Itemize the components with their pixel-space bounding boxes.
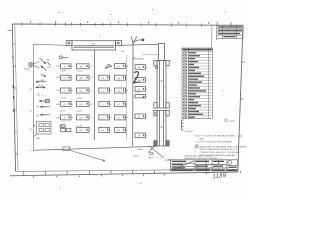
svg-text:B: B [38,93,40,97]
svg-text:A-4: A-4 [48,66,51,69]
board edge labels [31,66,33,131]
box right marks [68,65,144,136]
left margin inner line [15,24,18,171]
svg-text:REF ASM: REF ASM [136,58,145,61]
bottom zone dividers [24,170,155,176]
IC U15 [115,101,126,106]
svg-text:-05: -05 [31,110,33,113]
mark near table bottom right [225,119,228,122]
title block stamp circle [228,161,232,165]
leader 1 [69,150,104,160]
left zone dividers [13,44,18,154]
svg-text:3: 3 [92,77,93,79]
connector J3 upper [154,44,169,109]
bottom zone digits [33,174,165,178]
bottom margin inner line [16,169,238,171]
small part below wire [150,153,153,155]
transistor Q1 circle [29,62,40,69]
IC E2 [135,78,146,83]
IC U5 [77,75,90,80]
svg-text:A-XX YYY-XX-XX OF THE BACKBOAR: A-XX YYY-XX-XX OF THE BACKBOARD [196,134,236,137]
IC labels tiny [63,66,141,138]
svg-text:2-B12: 2-B12 [134,156,139,158]
svg-text:CONNECTORS. HIGH SLOT WIRES: A: CONNECTORS. HIGH SLOT WIRES: ALL [199,151,240,154]
leader 3 [148,146,154,153]
arrow A1 [40,100,50,103]
reference flag F1 [106,64,112,68]
IC U14 [99,101,110,106]
svg-text:-08-04: -08-04 [76,111,81,113]
board outline top edge [34,44,66,45]
note flag 2 [195,145,198,148]
IC row 2 [61,75,126,80]
IC E4 [135,95,146,98]
border top [12,24,243,25]
pin stub with circle [59,56,68,59]
inter-row wire labels [59,70,140,127]
svg-text:-03: -03 [31,88,33,91]
IC U22 [115,128,126,133]
IC row 1 [61,64,126,69]
title block text [172,161,237,171]
svg-text:B: B [33,124,35,128]
svg-text:A-18: A-18 [149,157,153,160]
svg-text:C-XX YYY XX-XX-XX FOR JUMPERS.: C-XX YYY XX-XX-XX FOR JUMPERS. [196,141,233,143]
IC U20 [77,128,90,133]
notes text [196,134,247,157]
connector J3 pin circle [155,66,158,69]
scan speckles [30,9,226,189]
svg-text:A-09: A-09 [57,116,61,119]
connector J4 lower [154,111,169,147]
arrow A3 [41,114,51,115]
box pin stubs [71,66,147,135]
top zone numbers [30,21,209,24]
border right [238,25,243,172]
title block [171,160,238,172]
jumper arrows J-B [36,87,45,88]
svg-text:B: B [37,105,39,109]
signal table text [182,49,212,51]
jumper arrows J-A [36,81,47,82]
svg-text:-09A-12: -09A-12 [59,124,66,127]
antenna V symbol [131,36,142,43]
IC U2 [77,64,90,69]
IC U3 [115,64,126,69]
svg-text:J1-A6: J1-A6 [39,79,44,82]
IC U11 [115,88,126,93]
arrow A2 [41,106,51,107]
IC U1 [61,64,71,69]
IC E1 [135,65,146,70]
IC row 5 [61,115,126,120]
svg-text:A-07: A-07 [57,103,61,106]
svg-text:-04-05: -04-05 [77,97,82,99]
svg-text:-05-02: -05-02 [61,97,66,99]
top zone ticks [22,22,231,27]
border bottom outer [10,172,238,176]
svg-text:7: 7 [92,104,93,106]
IC U9 [77,88,90,93]
IC U13 [77,101,90,106]
signature diagonal [172,161,195,171]
diode CR1 arrow [40,58,51,71]
connector J2 top [66,41,121,51]
svg-text:B: B [37,114,39,118]
svg-text:A-01: A-01 [57,65,61,68]
fold line center [126,55,128,140]
handwritten check mark [206,172,207,175]
IC U17 [77,115,90,120]
connector J4 pin circle [155,112,157,114]
IC row 6 [61,125,126,133]
board outline left edge [32,44,34,150]
left zone letters [12,56,15,112]
right border ticks [239,62,245,136]
IC E6 [135,133,146,138]
svg-text:A-05: A-05 [57,89,61,92]
bus B vertical [132,44,134,147]
svg-text:9: 9 [92,117,93,119]
IC U16 [61,115,71,120]
svg-text:AND: AND [199,137,204,140]
revision block text [218,26,242,37]
resistor pack RP1 [61,128,66,131]
IC E5 [135,114,146,119]
row side labels [57,65,94,120]
wire top to connectors [121,44,158,45]
IC row 4 [61,101,126,106]
bus B top label [133,57,135,60]
svg-text:A2: A2 [122,50,124,53]
relay K1 box [34,122,51,137]
leader 2 [150,147,163,158]
diode CR2 [41,74,46,77]
left registration tick [8,30,13,32]
svg-text:CR1: CR1 [46,60,50,62]
svg-text:WHITE JUMPERS AT IN EACH BOTTO: WHITE JUMPERS AT IN EACH BOTTOM [199,148,239,151]
IC column E [135,65,146,138]
IC U8 [61,88,71,93]
IC E3 [135,87,146,92]
IC U18 [99,115,110,120]
leader dot [142,39,145,42]
bracket marks below table [182,120,184,130]
revision block top right [217,25,243,38]
notes last lines [184,155,218,160]
svg-text:-07: -07 [31,128,33,131]
svg-text:1: 1 [92,66,93,68]
IC U7 [115,75,126,80]
handwritten 2 [134,72,141,83]
IC U21 [99,128,110,133]
svg-text:2-A48: 2-A48 [138,148,143,151]
wire bus2 to connector [142,54,159,56]
IC U19 [115,115,126,120]
IC U4 [61,75,71,80]
signal table right [182,48,213,119]
bus A vertical [93,50,95,140]
svg-text:R.S.S.M: R.S.S.M [185,131,193,133]
svg-text:5: 5 [92,90,93,92]
board outline bottom edge [33,146,157,150]
fold lines below revision block [211,25,213,48]
IC U10 [99,88,110,93]
IC U12 [61,101,71,106]
wire terminator flag [63,147,70,151]
svg-text:-01-03: -01-03 [77,70,82,72]
svg-text:+D+: +D+ [36,137,41,140]
svg-text:J-1848: J-1848 [165,159,173,162]
svg-text:T-A370: T-A370 [24,67,30,70]
svg-text:-07-08: -07-08 [76,125,81,127]
svg-text:4D: 4D [138,117,141,119]
IC row 3 [61,88,126,93]
IC U6 [99,75,110,80]
border left [12,24,15,171]
svg-text:A-03: A-03 [57,76,61,79]
svg-text:-4C-2: -4C-2 [135,91,140,93]
svg-text:-02-06: -02-06 [61,70,66,72]
svg-text:-09-11: -09-11 [60,111,65,113]
svg-text:5-08: 5-08 [230,120,234,122]
svg-text:WHEN RED OR RED WIRE LEAD LONG: WHEN RED OR RED WIRE LEAD LONG WIRES [199,145,247,148]
svg-text:J2-A4: J2-A4 [38,84,43,87]
